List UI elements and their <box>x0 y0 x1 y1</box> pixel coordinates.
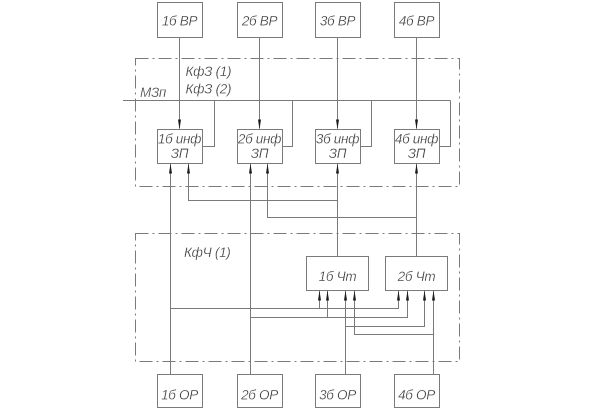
svg-text:ЗП: ЗП <box>251 146 269 161</box>
svg-text:4б ВР: 4б ВР <box>399 14 435 29</box>
svg-text:1б ОР: 1б ОР <box>161 388 198 403</box>
svg-text:ЗП: ЗП <box>329 146 347 161</box>
svg-text:2б Чт: 2б Чт <box>397 269 436 284</box>
svg-text:3б ОР: 3б ОР <box>319 388 356 403</box>
svg-text:1б инф: 1б инф <box>158 132 201 147</box>
svg-text:2б инф: 2б инф <box>237 132 281 147</box>
svg-text:4б инф: 4б инф <box>395 132 438 147</box>
svg-text:КфЗ (1): КфЗ (1) <box>186 64 232 79</box>
svg-text:3б ВР: 3б ВР <box>320 14 356 29</box>
svg-text:ЗП: ЗП <box>171 146 189 161</box>
svg-text:ЗП: ЗП <box>408 146 426 161</box>
svg-text:КфЧ (1): КфЧ (1) <box>184 245 230 260</box>
svg-text:МЗп: МЗп <box>140 85 167 100</box>
svg-text:3б инф: 3б инф <box>316 132 359 147</box>
svg-text:1б ВР: 1б ВР <box>162 14 198 29</box>
svg-text:КфЗ (2): КфЗ (2) <box>186 82 232 97</box>
svg-text:2б ОР: 2б ОР <box>240 388 278 403</box>
svg-text:4б ОР: 4б ОР <box>398 388 435 403</box>
svg-text:1б Чт: 1б Чт <box>319 269 357 284</box>
svg-text:2б ВР: 2б ВР <box>241 14 278 29</box>
